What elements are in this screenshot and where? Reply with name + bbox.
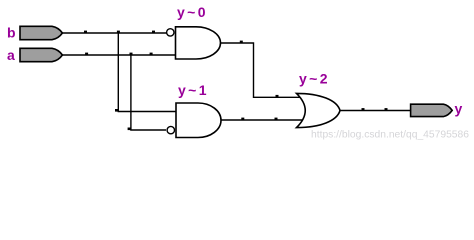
junction dot y~0 output wire (240, 41, 243, 44)
junction dot wire a x=131 (130, 53, 133, 56)
svg-text:y~2: y~2 (299, 70, 330, 86)
and-gate y~0 body (176, 27, 221, 59)
junction dot wire b x=85 (84, 31, 87, 34)
junction dot output wire x=386 (385, 108, 388, 111)
and-gate y~1 input bubble (167, 126, 174, 133)
junction dot output wire x=363 (362, 108, 365, 111)
wire b branch vertical to y~1 top input (118, 32, 176, 111)
input pin b connector (20, 26, 62, 39)
svg-text:y~1: y~1 (178, 82, 209, 98)
svg-text:y~0: y~0 (177, 4, 208, 20)
junction dot wire b x=153 (152, 31, 155, 34)
junction dot wire a x=86 (85, 53, 88, 56)
svg-text:y: y (455, 100, 463, 116)
svg-text:https://blog.csdn.net/qq_45795: https://blog.csdn.net/qq_45795586 (311, 128, 469, 140)
junction dot y~1 output wire x=243 (241, 118, 244, 121)
svg-text:a: a (7, 47, 15, 63)
junction dot wire a x=151 (150, 53, 153, 56)
input pin a connector (20, 48, 62, 61)
wire y~1 output to or-gate bottom input (221, 119, 304, 121)
and-gate y~0 input bubble (167, 29, 174, 36)
junction dot wire b x=118 (117, 31, 120, 34)
wire a horizontal (62, 54, 175, 56)
svg-text:b: b (7, 25, 16, 41)
and-gate y~1 body (176, 103, 221, 138)
junction dot or top input wire (276, 95, 279, 98)
wire y~0 output to or-gate top input (221, 43, 305, 97)
junction dot corner y~1 bottom input (128, 128, 131, 131)
or-gate y~2 body (297, 93, 341, 127)
junction dot y~1 output wire x=276 (275, 118, 278, 121)
wire or-gate output to pin y (340, 110, 411, 112)
wire a branch vertical to y~1 bottom input (131, 54, 166, 130)
output pin y connector (411, 104, 453, 116)
wire b horizontal (62, 32, 167, 34)
junction dot corner y~1 top input (115, 109, 118, 112)
